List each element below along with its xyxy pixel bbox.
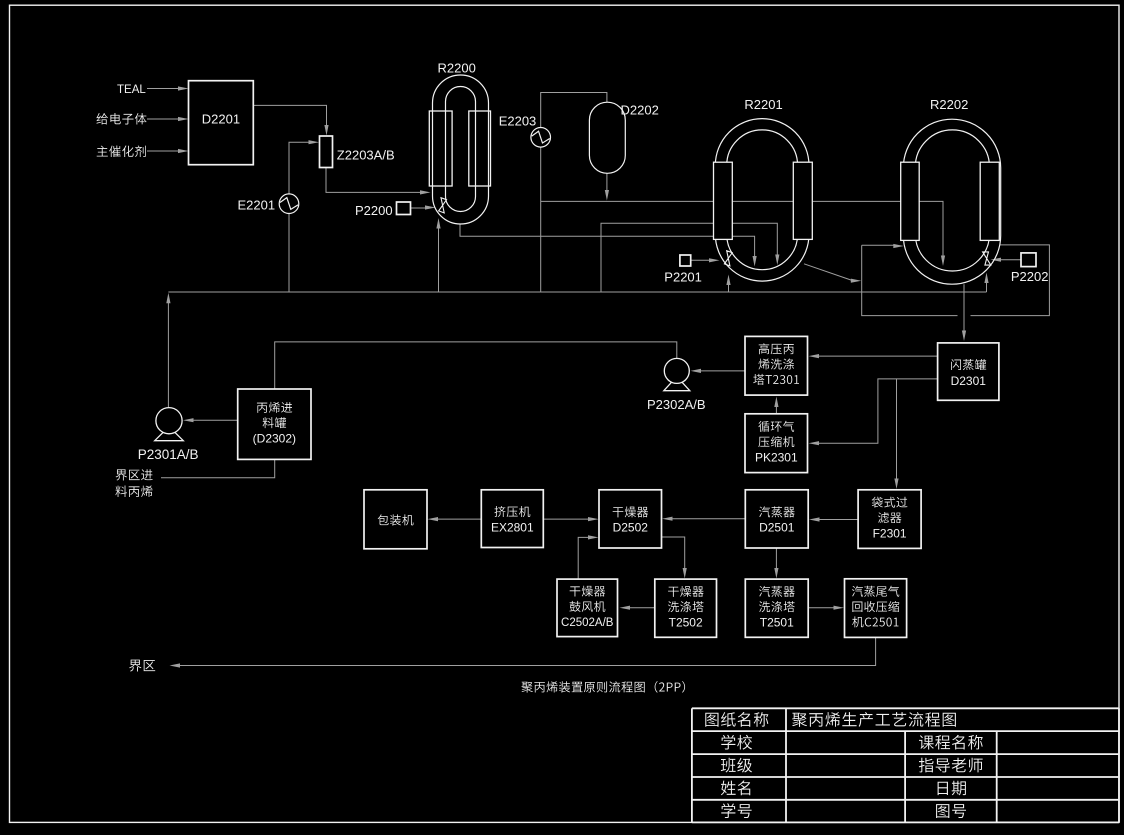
pump block P2200 [397,202,411,215]
wire P2202 to R2202 [1001,259,1022,261]
wire E2201 down to propylene bus [288,213,290,292]
wire transfer riser and bottom run [862,245,958,315]
wire main catalyst feed [147,150,180,152]
svg-text:D2501: D2501 [759,521,795,535]
arrow into R2201 bottom (transfer) [753,256,757,267]
arrow into R2200 left [420,190,431,194]
wire battery-limit propylene feed to D2302 [161,460,275,478]
column T2501 steamer wash [745,579,808,637]
svg-text:T2501: T2501 [760,616,794,630]
compressor PK2301 recycle gas [745,414,808,473]
vessel D2301 flash drum [938,343,999,400]
svg-text:R2201: R2201 [744,97,782,112]
svg-text:R2202: R2202 [930,97,968,112]
pump P2302A/B [664,377,690,391]
wire P2301 discharge riser [167,303,169,408]
CJK labels (vector glyphs) [96,113,986,818]
packing machine [364,490,427,549]
wire E2203 top to D2202 [541,93,607,128]
wire electron donor feed [147,118,180,120]
wire branch down to F2301 [896,379,898,479]
arrow into R2202 bottom (gas) [941,256,945,267]
svg-text:P2301A/B: P2301A/B [138,447,199,462]
svg-text:P2201: P2201 [664,269,702,284]
wire T2301 to P2302 [701,370,746,372]
wire D2201 to Z2203 [253,105,326,126]
arrow into R2200 agitator [425,205,436,209]
svg-text:D2202: D2202 [621,103,659,118]
svg-text:F2301: F2301 [873,526,907,540]
svg-text:EX2801: EX2801 [491,520,534,534]
arrow into P2302 pump [691,369,702,373]
arrow into D2502 left [588,517,599,521]
filter F2301 bag filter [858,490,921,549]
column T2301 HP propylene wash [745,336,808,395]
wire main propylene bus [168,291,986,293]
heat exchanger E2201 [279,194,299,214]
wire D2501 to D2502 [673,518,746,520]
svg-text:E2203: E2203 [499,113,537,128]
wire bus riser into R2200 bottom [438,228,440,292]
dryer D2502 [599,490,662,548]
compressor C2501 steam offgas recovery [845,579,907,638]
arrow D2202 into gas line [605,190,609,201]
arrow into D2502 right [662,517,673,521]
svg-text:P2202: P2202 [1011,269,1049,284]
arrow into C2501 left [834,606,845,610]
wire D2301 gas to PK2301 [819,379,938,443]
svg-text:TEAL: TEAL [117,84,146,96]
extruder EX2801 [481,490,543,548]
arrow into R2201 bottom (feed) [775,255,779,266]
wire T2501 to C2501 [808,607,834,609]
wire F2301 to D2501 [819,519,858,521]
arrow into PK2301 right [809,441,820,445]
arrow into R2201 agitator [709,258,720,262]
arrow into F2301 top [894,479,898,490]
loop reactor R2202 [903,119,1000,284]
arrow into R2201 bottom [726,275,730,286]
arrow to battery limit [170,663,181,667]
feeder Z2203A/B [320,136,333,168]
arrow into Z2203 top [324,125,328,136]
loop reactor R2201 [715,119,809,282]
vessel D2202 degassing pot [589,102,625,173]
wire E2203 down to bus [540,147,542,292]
arrow into R2202 bottom left [893,244,904,248]
wire gas bus y201 to R2202 [541,201,943,256]
wire transfer into R2202 [862,244,894,246]
wire EX2801-D2502 link [543,518,588,520]
arrow into Z2203 left [309,140,320,144]
wire P2302 suction from D2302 top [275,342,677,389]
pump block P2202 [1021,253,1036,267]
wire T2502 to C2502 [630,607,655,609]
arrow into T2502 top [683,568,687,579]
wire TEAL feed [147,88,180,90]
svg-text:PK2301: PK2301 [755,451,798,465]
pump P2301A/B [155,427,184,441]
pump block P2201 [680,255,691,266]
arrow into D2201 (catalyst) [178,149,189,153]
arrow into D2301 [962,331,966,342]
svg-text:D2201: D2201 [202,112,240,127]
arrow into R2202 bottom [984,273,988,284]
wire D2501 to T2501 [775,548,777,569]
arrow into D2501 right [809,517,820,521]
wire D2202 bottom drop [606,173,608,190]
svg-text:P2302A/B: P2302A/B [647,397,706,412]
wire D2301 to T2301 [819,355,938,357]
arrow into C2502 right [620,606,631,610]
wire D2302 to P2301 [193,419,238,421]
vessel D2201 catalyst mix tank [189,81,254,165]
arrow into D2201 (TEAL) [178,86,189,90]
arrow P2301 into bus [166,293,170,304]
arrow into D2502 left (air) [588,535,599,539]
svg-text:D2502: D2502 [613,521,649,535]
svg-text:T2502: T2502 [669,616,703,630]
wire R2202 outlet down [963,284,965,330]
svg-text:Z2203A/B: Z2203A/B [337,148,395,163]
wire bus riser into R2202 [986,281,988,292]
column T2502 dryer wash [655,579,717,637]
wire R2200 outlet to R2201 [460,224,755,256]
wire C2501 offgas to battery limit [180,637,876,665]
heat exchanger E2203 [531,128,551,148]
arrow into T2301 bottom [774,397,778,408]
wire P2201 to R2201 [691,259,710,261]
wire E2201 to Z2203 [289,142,310,194]
wire bus branch into R2201 [601,223,777,292]
svg-text:P2200: P2200 [355,203,393,218]
arrow R2201 outlet into riser [851,279,862,283]
title block table [692,707,1119,709]
svg-text:R2200: R2200 [438,61,476,76]
wire PK2301 to T2301 [775,407,777,414]
wire Z2203 to R2200 [326,168,420,193]
svg-text:E2201: E2201 [238,198,276,213]
vessel D2302 propylene feed tank [238,389,311,459]
arrow into R2202 agitator [991,258,1002,262]
wire EX2801 to packer [438,518,482,520]
wire C2502 recycle to D2502 [578,537,588,579]
arrow into T2501 top [774,568,778,579]
wire bus riser into R2201 [728,283,730,292]
arrow into R2200 bottom [436,218,440,229]
svg-text:D2301: D2301 [951,374,987,388]
svg-text:C2502A/B: C2502A/B [561,617,614,629]
blower C2502A/B dryer blower [557,579,618,637]
arrow into T2301 right [809,354,820,358]
arrow into P2301 pump [183,418,194,422]
svg-text:(D2302): (D2302) [253,432,296,446]
wire R2201 outlet sloped [804,264,852,281]
wire P2202 circulation loop [971,245,1050,316]
wire P2200 to R2200 [411,207,426,209]
loop reactor R2200 [433,75,489,224]
wire D2502 to T2502 [662,537,685,569]
steamer D2501 [745,490,808,548]
arrow into packing machine [428,517,439,521]
arrow into D2201 (donor) [178,117,189,121]
